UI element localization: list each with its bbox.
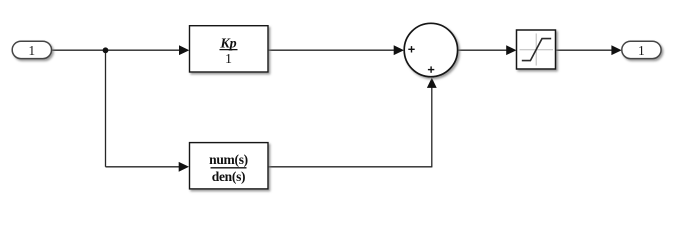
saturation curve (522, 39, 551, 61)
inport 1 (12, 41, 51, 58)
fraction bar Kp (220, 49, 238, 51)
block Kp/1 (gain transfer fcn) (190, 26, 269, 72)
block num(s)/den(s) (transfer fcn) (190, 143, 269, 189)
saturation block (517, 30, 556, 69)
svg-text:1: 1 (638, 43, 645, 58)
sum block (404, 23, 457, 76)
wire: up to sum (431, 85, 433, 167)
junction node (103, 47, 109, 53)
svg-text:num(s): num(s) (209, 152, 248, 167)
wire: inport to junction to Kp block (51, 49, 180, 51)
wire: num/den to below sum (268, 166, 432, 168)
arrowhead into Kp (179, 45, 189, 55)
fraction bar num/den (211, 167, 247, 169)
wire: Kp block to sum (268, 49, 396, 51)
arrowhead into sum (bottom) (427, 78, 437, 88)
svg-text:1: 1 (225, 52, 232, 67)
plus sign (bottom input) (428, 66, 434, 72)
arrowhead into sum (left) (394, 45, 404, 55)
arrowhead into num/den (179, 162, 189, 172)
plus sign (left input) (408, 46, 414, 52)
svg-text:den(s): den(s) (212, 169, 245, 184)
wire: saturation to outport (556, 49, 616, 51)
outport 1 (622, 41, 661, 58)
arrowhead into outport (611, 45, 621, 55)
wire: to num/den block (106, 166, 181, 168)
saturation crosshair (535, 34, 537, 66)
arrowhead into saturation (506, 45, 516, 55)
svg-text:1: 1 (28, 43, 35, 58)
wire: sum to saturation (458, 49, 510, 51)
wire: junction down (105, 50, 107, 167)
